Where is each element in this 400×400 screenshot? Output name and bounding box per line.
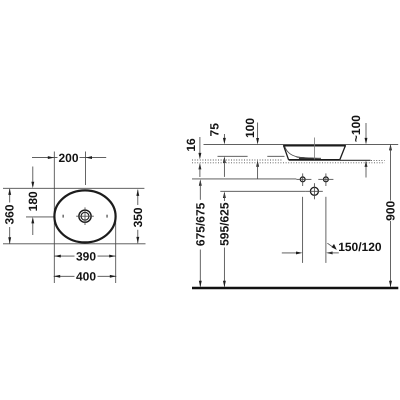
dim 150/120 left shaft bbox=[282, 252, 300, 254]
ext line below fixture left bbox=[302, 197, 304, 263]
dim 16 arrow bottom+tail bbox=[198, 163, 201, 170]
dim ~100 shaft+arrow top bbox=[365, 123, 367, 142]
center axis line bbox=[313, 138, 315, 160]
svg-text:400: 400 bbox=[76, 270, 96, 284]
drain dark bar bbox=[299, 157, 314, 159]
rim top ext line bbox=[204, 144, 399, 146]
counter top dotted right bbox=[371, 159, 385, 161]
dim 400 text bbox=[75, 271, 98, 282]
basin left slant bbox=[284, 145, 289, 159]
basin bottom edge bbox=[289, 159, 340, 161]
dim 180 arrow top (outside) bbox=[32, 167, 34, 187]
drain circle bbox=[310, 187, 318, 195]
dim 350 arrow top bbox=[136, 189, 139, 196]
floor line bbox=[192, 287, 398, 289]
dim 390 arrow right bbox=[109, 255, 116, 258]
dim 595/625 arrow top bbox=[223, 192, 226, 199]
fixture hole left cross bbox=[296, 178, 311, 180]
ext line vertical left x=54.3 bbox=[53, 152, 55, 284]
svg-text:900: 900 bbox=[384, 200, 398, 220]
dim 595/625 arrow bottom bbox=[223, 281, 226, 288]
dim 360 line upper bbox=[9, 189, 11, 203]
dim 675/675 line lower bbox=[199, 250, 201, 287]
basin inner wall curve bbox=[285, 146, 305, 157]
dim 200 arrow left bbox=[48, 156, 55, 159]
dim 100 shaft+arrow top bbox=[257, 123, 259, 143]
drain inner circle bbox=[81, 212, 89, 220]
svg-text:~100: ~100 bbox=[349, 115, 363, 142]
bowl-depth line (75 ref) left seg bbox=[218, 155, 248, 157]
basin body fill bbox=[283, 145, 345, 160]
drain outer circle bbox=[79, 210, 91, 222]
dim 400 line bbox=[54, 275, 117, 277]
drain ext line bbox=[220, 190, 305, 192]
svg-text:100: 100 bbox=[243, 118, 257, 138]
dim 360 line lower bbox=[9, 227, 11, 244]
svg-text:595/625: 595/625 bbox=[217, 202, 231, 246]
fixture hole right cross bbox=[318, 178, 333, 180]
side tick right bbox=[106, 215, 107, 218]
dim 360 arrow bottom bbox=[8, 237, 11, 244]
fixture hole left circle bbox=[300, 177, 305, 182]
dim 350 arrow bottom bbox=[136, 237, 139, 244]
dim 180 arrow bottom (outside) bbox=[32, 220, 34, 235]
ext line top (y 188.7) bbox=[3, 187, 144, 189]
dim 75 arrow bottom+tail bbox=[223, 156, 226, 163]
dim 350 line upper bbox=[137, 190, 139, 205]
drain circle cross v bbox=[313, 183, 315, 199]
counter top dotted left bbox=[192, 159, 283, 161]
dim 595/625 line lower bbox=[223, 248, 225, 287]
svg-text:180: 180 bbox=[26, 191, 40, 211]
dim 900 arrow bottom bbox=[389, 281, 392, 288]
ext line mid (180 bottom) bbox=[26, 216, 54, 218]
svg-text:360: 360 bbox=[3, 204, 17, 224]
dim 675/675 arrow bottom bbox=[199, 281, 202, 288]
dim 400 arrow right bbox=[110, 275, 117, 278]
dim 900 arrow top bbox=[389, 144, 392, 151]
svg-text:675/675: 675/675 bbox=[194, 202, 208, 246]
dim 75 shaft+arrow top bbox=[223, 134, 225, 142]
basin rim top line bbox=[283, 145, 346, 147]
basin water line top bbox=[297, 157, 321, 158]
dim 150/120 leader arrow bbox=[327, 243, 333, 247]
fixture axis line bbox=[192, 178, 296, 180]
bowl-depth line (75 ref) right seg bbox=[267, 155, 284, 157]
basin right slant bbox=[340, 145, 346, 159]
dim 390 arrow left bbox=[54, 255, 61, 258]
ext line vertical center x=85.5 bbox=[85, 152, 87, 186]
dim 16 shaft+arrow top bbox=[199, 137, 201, 157]
dim ~100 arrow bottom+tail bbox=[365, 160, 368, 167]
dim 200 text bbox=[58, 152, 80, 163]
dim 400 arrow left bbox=[54, 275, 61, 278]
counter bottom dotted bbox=[192, 162, 385, 164]
fixture hole right circle bbox=[324, 177, 329, 182]
ext line vertical right x=115.7 bbox=[115, 216, 117, 283]
dim 200 line bbox=[32, 157, 106, 159]
dim 390 line bbox=[54, 255, 115, 257]
svg-text:16: 16 bbox=[184, 138, 198, 152]
dim 390 text bbox=[75, 251, 98, 262]
dim 100 arrow bottom+tail bbox=[256, 160, 259, 167]
ext line below fixture right bbox=[325, 197, 327, 263]
dim 360 arrow top bbox=[8, 188, 11, 195]
basin water line bottom bbox=[298, 158, 321, 159]
ext line bottom (y 243.8) bbox=[3, 243, 146, 245]
dim 900 line lower bbox=[390, 221, 392, 287]
svg-text:350: 350 bbox=[131, 207, 145, 227]
drain cross h bbox=[76, 215, 94, 217]
basin outline ellipse bbox=[54, 190, 115, 242]
counter top solid right of basin bbox=[340, 159, 371, 161]
dim 675/675 arrow top bbox=[199, 179, 202, 186]
svg-text:200: 200 bbox=[58, 151, 78, 165]
drain circle cross h bbox=[306, 190, 323, 192]
svg-text:75: 75 bbox=[208, 123, 222, 137]
side tick left bbox=[63, 215, 64, 218]
drain cross v bbox=[84, 207, 86, 225]
dim 150/120 right arrow+shaft bbox=[326, 251, 333, 254]
dim 200 arrow right bbox=[86, 156, 93, 159]
svg-text:390: 390 bbox=[76, 250, 96, 264]
dim 350 line lower bbox=[137, 230, 139, 243]
svg-text:150/120: 150/120 bbox=[338, 240, 382, 254]
